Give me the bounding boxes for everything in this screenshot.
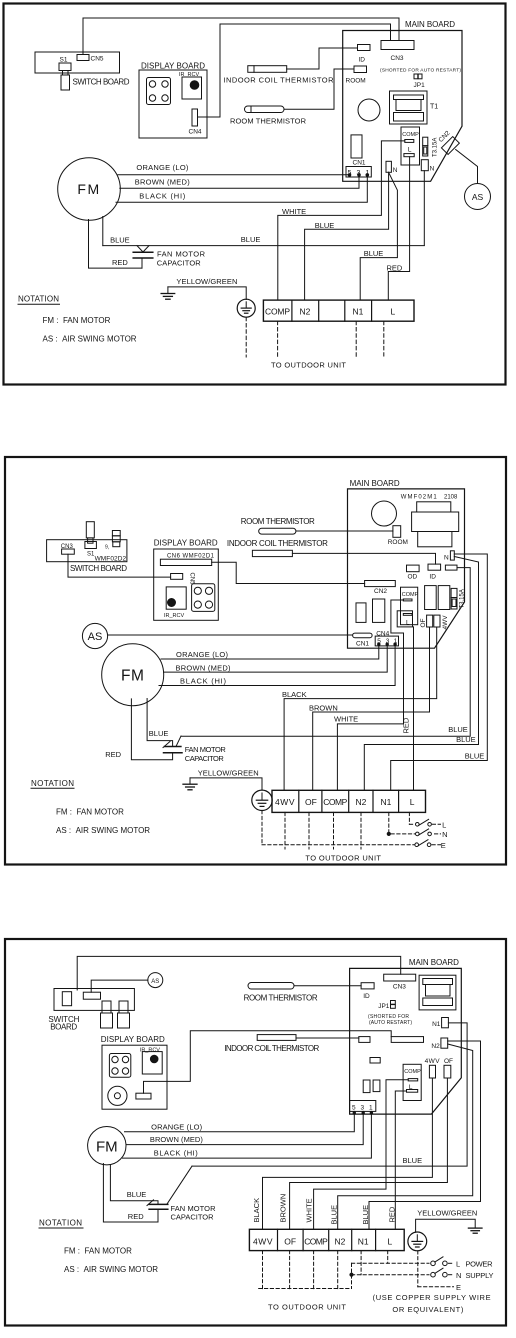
svg-text:N1: N1	[353, 307, 364, 317]
svg-text:L: L	[406, 619, 410, 626]
svg-text:IR_RCV: IR_RCV	[164, 613, 185, 619]
svg-text:(USE COPPER SUPPLY WIRE: (USE COPPER SUPPLY WIRE	[373, 1293, 491, 1302]
svg-text:ROOM THERMISTOR: ROOM THERMISTOR	[241, 517, 315, 526]
svg-text:IR_RCV: IR_RCV	[140, 1047, 161, 1053]
svg-text:CN2: CN2	[437, 129, 451, 143]
svg-text:SWITCH BOARD: SWITCH BOARD	[70, 564, 127, 573]
svg-text:OF: OF	[444, 1058, 453, 1065]
svg-text:BLACK (HI): BLACK (HI)	[139, 192, 186, 201]
svg-text:YELLOW/GREEN: YELLOW/GREEN	[176, 277, 237, 286]
svg-text:T3.15A: T3.15A	[460, 589, 466, 608]
svg-text:4WV: 4WV	[275, 797, 295, 807]
svg-text:DISPLAY BOARD: DISPLAY BOARD	[141, 62, 205, 71]
svg-text:OF: OF	[420, 618, 427, 627]
svg-text:OD: OD	[408, 574, 418, 581]
svg-text:DISPLAY BOARD: DISPLAY BOARD	[101, 1035, 165, 1044]
svg-text:BLUE: BLUE	[448, 725, 468, 734]
svg-text:IR_RCV: IR_RCV	[179, 72, 200, 78]
svg-text:SUPPLY: SUPPLY	[466, 1271, 494, 1280]
svg-text:BLACK: BLACK	[282, 690, 307, 699]
svg-text:CN3: CN3	[393, 983, 406, 990]
svg-text:CN2: CN2	[374, 588, 387, 595]
svg-text:COMP: COMP	[402, 592, 419, 598]
svg-text:AS: AS	[472, 192, 484, 202]
svg-text:TO OUTDOOR UNIT: TO OUTDOOR UNIT	[271, 361, 346, 370]
svg-text:OR EQUIVALENT): OR EQUIVALENT)	[392, 1305, 464, 1314]
svg-text:BLUE: BLUE	[315, 221, 335, 230]
svg-text:CAPACITOR: CAPACITOR	[185, 754, 225, 763]
svg-text:S1: S1	[60, 57, 68, 64]
svg-text:FM : FAN MOTOR: FM : FAN MOTOR	[56, 808, 124, 817]
svg-text:L: L	[442, 820, 446, 829]
svg-text:COMP: COMP	[404, 1069, 421, 1075]
svg-text:CN6 WMF02D1: CN6 WMF02D1	[167, 554, 215, 560]
svg-text:SWITCH BOARD: SWITCH BOARD	[73, 78, 130, 87]
svg-text:BOARD: BOARD	[50, 1023, 77, 1032]
svg-text:RED: RED	[105, 750, 121, 759]
svg-text:L: L	[409, 1084, 413, 1091]
svg-text:AS : AIR SWING MOTOR: AS : AIR SWING MOTOR	[43, 335, 137, 344]
svg-text:AS: AS	[151, 979, 159, 985]
svg-text:OF: OF	[284, 1236, 296, 1246]
svg-text:(AUTO RESTART): (AUTO RESTART)	[369, 1020, 412, 1026]
svg-text:INDOOR COIL THERMISTOR: INDOOR COIL THERMISTOR	[224, 1044, 319, 1053]
svg-text:L: L	[391, 307, 396, 317]
svg-text:ORANGE (LO): ORANGE (LO)	[151, 1123, 203, 1132]
svg-text:BROWN: BROWN	[279, 1194, 288, 1223]
svg-text:RED: RED	[402, 717, 411, 733]
svg-text:RED: RED	[388, 1206, 397, 1222]
svg-text:N: N	[444, 554, 449, 561]
svg-text:AS : AIR SWING MOTOR: AS : AIR SWING MOTOR	[56, 826, 150, 835]
svg-text:FM: FM	[77, 181, 100, 197]
svg-text:CAPACITOR: CAPACITOR	[157, 259, 202, 268]
svg-text:L: L	[388, 1236, 393, 1246]
svg-text:FM: FM	[121, 668, 144, 685]
svg-text:3: 3	[386, 638, 390, 645]
svg-text:JP1: JP1	[378, 1003, 390, 1010]
svg-text:BROWN (MED): BROWN (MED)	[150, 1135, 204, 1144]
svg-text:CN5: CN5	[189, 573, 195, 586]
svg-text:BROWN (MED): BROWN (MED)	[176, 663, 232, 672]
svg-text:WHITE: WHITE	[305, 1198, 314, 1222]
svg-text:E: E	[441, 841, 446, 850]
svg-text:L: L	[408, 147, 412, 154]
svg-text:CN5: CN5	[91, 56, 104, 63]
svg-text:CN3: CN3	[61, 544, 74, 550]
svg-text:ID: ID	[363, 993, 370, 1000]
svg-text:(SHORTED FOR AUTO RESTART): (SHORTED FOR AUTO RESTART)	[380, 68, 461, 74]
svg-text:AS : AIR SWING MOTOR: AS : AIR SWING MOTOR	[64, 1265, 158, 1274]
svg-text:N: N	[393, 167, 398, 174]
svg-text:COMP: COMP	[265, 307, 290, 317]
svg-text:ID: ID	[359, 57, 366, 64]
svg-text:INDOOR COIL THERMISTOR: INDOOR COIL THERMISTOR	[227, 539, 328, 548]
svg-text:ROOM: ROOM	[346, 78, 366, 85]
svg-text:N2: N2	[300, 307, 311, 317]
svg-text:FAN MOTOR: FAN MOTOR	[157, 250, 206, 259]
svg-text:4WV: 4WV	[442, 615, 449, 630]
svg-text:N2: N2	[356, 797, 367, 807]
svg-text:BLUE: BLUE	[361, 1205, 370, 1225]
svg-text:BLUE: BLUE	[329, 1205, 338, 1225]
svg-text:AS: AS	[88, 631, 103, 643]
svg-text:N: N	[430, 166, 435, 173]
svg-text:CN1: CN1	[356, 640, 369, 647]
svg-text:WMF02D2: WMF02D2	[95, 556, 127, 563]
svg-text:T3.15A: T3.15A	[433, 138, 439, 157]
svg-text:NOTATION: NOTATION	[18, 295, 59, 304]
svg-text:YELLOW/GREEN: YELLOW/GREEN	[417, 1208, 477, 1217]
svg-text:TO OUTDOOR UNIT: TO OUTDOOR UNIT	[268, 1303, 346, 1312]
svg-text:COMP: COMP	[402, 132, 419, 138]
svg-text:FAN MOTOR: FAN MOTOR	[171, 1204, 217, 1213]
svg-text:CAPACITOR: CAPACITOR	[171, 1213, 215, 1222]
svg-text:L: L	[456, 1259, 460, 1268]
svg-text:RED: RED	[387, 264, 403, 273]
svg-text:ROOM THERMISTOR: ROOM THERMISTOR	[230, 117, 307, 126]
svg-text:MAIN BOARD: MAIN BOARD	[350, 479, 400, 488]
svg-text:FM: FM	[96, 1138, 118, 1155]
svg-text:OF: OF	[305, 797, 317, 807]
svg-text:INDOOR COIL THERMISTOR: INDOOR COIL THERMISTOR	[224, 76, 335, 85]
svg-text:BLUE: BLUE	[127, 1190, 147, 1199]
svg-text:9,: 9,	[105, 545, 109, 551]
svg-text:COMP: COMP	[323, 797, 347, 807]
svg-text:ROOM THERMISTOR: ROOM THERMISTOR	[244, 994, 318, 1003]
svg-text:JP1: JP1	[414, 82, 426, 89]
svg-text:N: N	[456, 1271, 461, 1280]
svg-text:E: E	[456, 1283, 461, 1292]
svg-text:BLUE: BLUE	[403, 1156, 423, 1165]
svg-text:BLUE: BLUE	[149, 729, 169, 738]
svg-text:BLACK: BLACK	[252, 1198, 261, 1223]
svg-text:BLACK (HI): BLACK (HI)	[154, 1149, 199, 1158]
svg-text:T1: T1	[430, 104, 438, 111]
svg-text:3: 3	[357, 170, 361, 177]
svg-text:NOTATION: NOTATION	[31, 779, 74, 788]
svg-text:N2: N2	[335, 1236, 346, 1246]
svg-text:BLUE: BLUE	[364, 249, 384, 258]
svg-text:BROWN: BROWN	[309, 704, 338, 713]
svg-text:1: 1	[394, 638, 398, 645]
svg-text:FM : FAN MOTOR: FM : FAN MOTOR	[64, 1247, 132, 1256]
svg-text:COMP: COMP	[304, 1236, 328, 1246]
svg-text:N1: N1	[358, 1236, 369, 1246]
svg-text:5: 5	[377, 638, 381, 645]
svg-text:ORANGE (LO): ORANGE (LO)	[136, 163, 189, 172]
svg-text:3: 3	[361, 1105, 365, 1112]
svg-text:TO OUTDOOR UNIT: TO OUTDOOR UNIT	[305, 853, 381, 862]
svg-text:POWER: POWER	[466, 1259, 494, 1268]
svg-text:BLUE: BLUE	[241, 235, 261, 244]
svg-text:N1: N1	[381, 797, 392, 807]
svg-text:4WV: 4WV	[425, 1058, 441, 1065]
svg-text:CN3: CN3	[391, 55, 404, 62]
svg-text:RED: RED	[128, 1212, 144, 1221]
svg-text:BLUE: BLUE	[465, 752, 485, 761]
svg-text:N: N	[442, 830, 447, 839]
svg-text:BLUE: BLUE	[456, 735, 476, 744]
svg-text:CN4: CN4	[189, 129, 202, 136]
svg-text:BLUE: BLUE	[110, 236, 130, 245]
svg-text:WHITE: WHITE	[282, 207, 306, 216]
svg-text:WMF02M1: WMF02M1	[401, 495, 438, 501]
svg-text:1: 1	[366, 170, 370, 177]
svg-text:MAIN BOARD: MAIN BOARD	[409, 958, 459, 967]
svg-text:WHITE: WHITE	[334, 715, 358, 724]
svg-text:N2: N2	[431, 1043, 440, 1050]
svg-text:FAN MOTOR: FAN MOTOR	[185, 745, 227, 754]
svg-text:ID: ID	[429, 574, 436, 581]
svg-text:2108: 2108	[444, 495, 458, 501]
svg-text:RED: RED	[112, 258, 128, 267]
svg-text:ROOM: ROOM	[388, 539, 408, 546]
svg-text:DISPLAY BOARD: DISPLAY BOARD	[154, 538, 218, 547]
svg-text:5: 5	[348, 170, 352, 177]
svg-text:YELLOW/GREEN: YELLOW/GREEN	[198, 768, 259, 777]
svg-text:MAIN BOARD: MAIN BOARD	[405, 20, 455, 29]
svg-text:1: 1	[369, 1105, 373, 1112]
svg-text:5: 5	[352, 1105, 356, 1112]
svg-text:CN4: CN4	[376, 630, 389, 637]
svg-text:4WV: 4WV	[253, 1236, 273, 1246]
svg-text:N1: N1	[432, 1021, 441, 1028]
svg-text:ORANGE (LO): ORANGE (LO)	[176, 650, 229, 659]
svg-text:BLACK (HI): BLACK (HI)	[180, 677, 227, 686]
svg-text:BROWN (MED): BROWN (MED)	[135, 178, 191, 187]
svg-text:FM : FAN MOTOR: FM : FAN MOTOR	[43, 316, 111, 325]
svg-text:L: L	[410, 797, 415, 807]
svg-text:CN1: CN1	[353, 160, 366, 167]
svg-text:NOTATION: NOTATION	[39, 1219, 82, 1228]
